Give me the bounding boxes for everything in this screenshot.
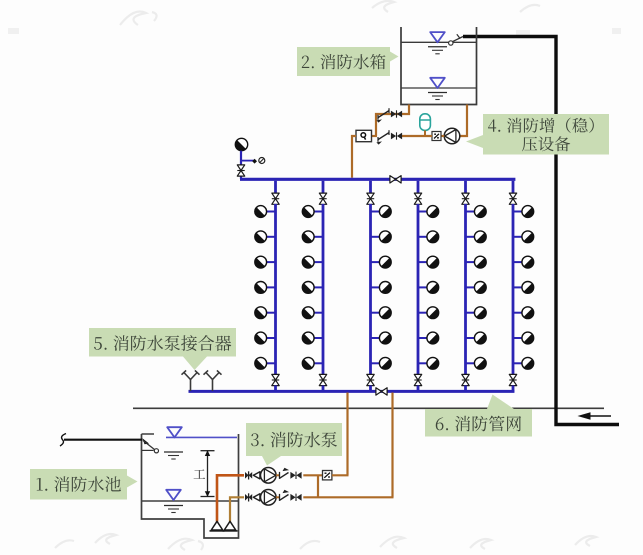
pool float valve	[142, 438, 158, 453]
fire hydrant riser 6 floor 7	[513, 357, 534, 369]
pipe: pump 2 discharge riser (brown)	[391, 393, 393, 498]
pipe: riser 6 bottom stub	[512, 385, 515, 392]
fire hydrant riser 4 floor 1	[418, 206, 439, 218]
label 2. fire water tank	[297, 47, 399, 76]
pipe: riser 1 top stub	[274, 181, 277, 193]
tank upper water line	[401, 41, 477, 43]
pipe: pump 1 to check valve	[276, 474, 279, 476]
pipe: cross connector between discharges	[317, 475, 319, 497]
fire hydrant riser 3 floor 4	[371, 282, 392, 294]
pipe: upper fire main (blue)	[240, 178, 515, 181]
siamese pump connector 2	[204, 370, 222, 391]
gate valve on lower fire main	[376, 388, 387, 395]
pipe: city supply main (black)	[463, 37, 619, 425]
fire hydrant riser 3 floor 3	[371, 256, 392, 268]
fire hydrant riser 1 floor 7	[255, 357, 276, 369]
pipe: flow switch down to fire main (brown)	[352, 136, 356, 178]
fire pool shell	[142, 434, 239, 538]
check valve after pump 2	[280, 490, 290, 501]
fire hydrant riser 2 floor 4	[302, 282, 323, 294]
pipe: pump 1 suction (orange)	[217, 475, 244, 521]
valve at top of riser 6	[509, 193, 516, 204]
water depth dimension line	[201, 451, 215, 497]
flow arrow into network	[578, 412, 612, 420]
label 1. fire pool	[30, 469, 138, 500]
fire hydrant riser 3 floor 7	[371, 357, 392, 369]
valve at bottom of riser 3	[367, 374, 374, 385]
fire hydrant riser 6 floor 2	[513, 231, 534, 243]
label 3. fire pump	[246, 423, 342, 466]
fire hydrant riser 3 floor 5	[371, 307, 392, 319]
pipe: riser 2 bottom stub	[322, 385, 325, 392]
stabilizing pump	[444, 128, 460, 144]
fire hydrant riser 5 floor 5	[466, 307, 487, 319]
fire hydrant riser 2 floor 1	[302, 206, 323, 218]
fire hydrant riser 1 floor 2	[255, 231, 276, 243]
inlet pipe break symbol	[60, 434, 66, 447]
valve at top of riser 4	[414, 193, 421, 204]
ground line	[133, 407, 604, 409]
pipe: riser 3 top stub	[369, 181, 372, 193]
valve at top of riser 3	[367, 193, 374, 204]
pool upper water hatches	[164, 452, 183, 459]
gate valve on upper fire main	[390, 176, 401, 183]
fire hydrant riser 2 floor 2	[302, 231, 323, 243]
pipe: riser 1 (blue standpipe)	[274, 204, 277, 375]
fire hydrant riser 5 floor 1	[466, 206, 487, 218]
gate valve on pump 1 suction	[245, 471, 252, 479]
fire hydrant riser 1 floor 6	[255, 332, 276, 344]
fire hydrant riser 6 floor 5	[513, 307, 534, 319]
pool lower water hatches	[164, 506, 183, 513]
fire pump 2	[261, 490, 277, 506]
fire hydrant riser 6 floor 3	[513, 256, 534, 268]
label 6. fire pipe network	[425, 395, 532, 437]
suction bell 1	[210, 521, 225, 531]
pipe: riser 2 (blue standpipe)	[322, 204, 325, 375]
pipe: pump 1 discharge header	[303, 474, 322, 476]
fire hydrant riser 6 floor 1	[513, 206, 534, 218]
tank lower water line	[401, 87, 477, 89]
pipe: pool inlet (black)	[64, 439, 143, 441]
pipe: pump 1 discharge riser (brown)	[346, 393, 348, 476]
valve at top of riser 2	[319, 193, 326, 204]
fire hydrant riser 3 floor 2	[371, 231, 392, 243]
check valve after pump 1	[280, 468, 290, 479]
fire hydrant riser 1 floor 1	[255, 206, 276, 218]
fire hydrant riser 5 floor 4	[466, 282, 487, 294]
suction bell 2	[223, 521, 238, 531]
valve below air vent	[237, 165, 244, 176]
pipe: riser 2 top stub	[322, 181, 325, 193]
pool lower water level symbol	[166, 490, 181, 500]
valve at bottom of riser 5	[462, 374, 469, 385]
pipe: pump to flex joint	[441, 135, 444, 137]
valve at top of riser 1	[272, 193, 279, 204]
fire water tank shell	[401, 27, 477, 105]
fire hydrant riser 3 floor 6	[371, 332, 392, 344]
pipe: riser 3 (blue standpipe)	[369, 204, 372, 375]
gate valve on stabilizer line	[391, 132, 402, 139]
fire hydrant riser 5 floor 2	[466, 231, 487, 243]
valve at bottom of riser 1	[272, 374, 279, 385]
pipe: pump 2 to check valve	[276, 496, 279, 498]
gate valve on bypass branch	[391, 110, 402, 117]
valve at bottom of riser 2	[319, 374, 326, 385]
valve at top of riser 5	[462, 193, 469, 204]
pool upper water level symbol	[167, 427, 182, 437]
fire hydrant riser 2 floor 6	[302, 332, 323, 344]
pipe: pump 2 discharge header	[303, 496, 393, 498]
flexible joint box	[432, 132, 441, 141]
flow meter box on pump 1 discharge	[323, 471, 332, 480]
valve at bottom of riser 6	[509, 374, 516, 385]
diaphragm pressure tank	[420, 114, 431, 136]
fire hydrant riser 5 floor 6	[466, 332, 487, 344]
pipe: riser 5 bottom stub	[464, 385, 467, 392]
pipe: riser 4 (blue standpipe)	[417, 204, 420, 375]
pipe: lower fire main (blue)	[189, 390, 515, 393]
fire hydrant riser 3 floor 1	[371, 206, 392, 218]
fire hydrant riser 5 floor 7	[466, 357, 487, 369]
fire hydrant riser 4 floor 7	[418, 357, 439, 369]
tank upper water level symbol	[428, 32, 447, 54]
pipe: pump 2 suction (tan)	[230, 497, 244, 521]
pipe: tank left outlet / bypass branch (brown)	[376, 105, 409, 137]
pipe: riser 5 (blue standpipe)	[464, 204, 467, 375]
fire hydrant riser 1 floor 5	[255, 307, 276, 319]
automatic air vent	[235, 138, 247, 150]
fire hydrant riser 5 floor 3	[466, 256, 487, 268]
label 4. stabilizing pressure equipment	[466, 114, 609, 155]
siamese pump connector 1	[182, 370, 200, 391]
label 5. fire pump connector	[89, 328, 236, 370]
fire hydrant riser 4 floor 4	[418, 282, 439, 294]
fire hydrant riser 6 floor 4	[513, 282, 534, 294]
pipe: junction to flow switch	[372, 135, 378, 137]
pipe: flex joint to gate valve	[402, 135, 432, 137]
fire hydrant riser 2 floor 7	[302, 357, 323, 369]
fire pool top-left edge	[142, 433, 155, 435]
gate valve on pump 2 discharge	[290, 494, 301, 501]
pipe: riser 3 bottom stub	[369, 385, 372, 392]
pipe: air vent stem (blue)	[240, 151, 242, 179]
valve at bottom of riser 4	[414, 374, 421, 385]
fire hydrant riser 4 floor 5	[418, 307, 439, 319]
pool upper water line (blue)	[166, 436, 237, 438]
reducer before pump 2	[253, 494, 260, 501]
flow switch box Q	[356, 130, 372, 141]
pipe: riser 4 top stub	[417, 181, 420, 193]
tank float valve	[449, 34, 463, 45]
tank lower water level symbol	[428, 78, 447, 100]
fire hydrant riser 4 floor 6	[418, 332, 439, 344]
pipe: riser 1 bottom stub	[274, 385, 277, 392]
pipe: riser 6 top stub	[512, 181, 515, 193]
fire hydrant riser 2 floor 5	[302, 307, 323, 319]
gate valve on pump 1 discharge	[290, 472, 301, 479]
fire hydrant riser 1 floor 4	[255, 282, 276, 294]
check valve on stabilizer line	[376, 130, 389, 144]
fire hydrant riser 4 floor 3	[418, 256, 439, 268]
fire hydrant riser 2 floor 3	[302, 256, 323, 268]
check valve on bypass branch	[376, 108, 389, 122]
pressure gauge	[259, 158, 265, 164]
pipe: riser 5 top stub	[464, 181, 467, 193]
dimension label 工	[194, 469, 206, 478]
fire hydrant riser 4 floor 2	[418, 231, 439, 243]
pipe: riser 6 (blue standpipe)	[512, 204, 515, 375]
pipe: stabilizer suction line (brown)	[460, 105, 468, 137]
fire pump 1	[261, 468, 277, 484]
fire hydrant riser 1 floor 3	[255, 256, 276, 268]
pipe: gauge branch (blue)	[241, 160, 255, 162]
reducer before pump 1	[253, 472, 260, 479]
pipe: flow meter to discharge riser	[332, 474, 349, 476]
fire hydrant riser 6 floor 6	[513, 332, 534, 344]
gauge cock	[252, 159, 257, 164]
pool lower water line	[142, 500, 239, 502]
gate valve on pump 2 suction	[245, 493, 252, 501]
pipe: riser 4 bottom stub	[417, 385, 420, 392]
